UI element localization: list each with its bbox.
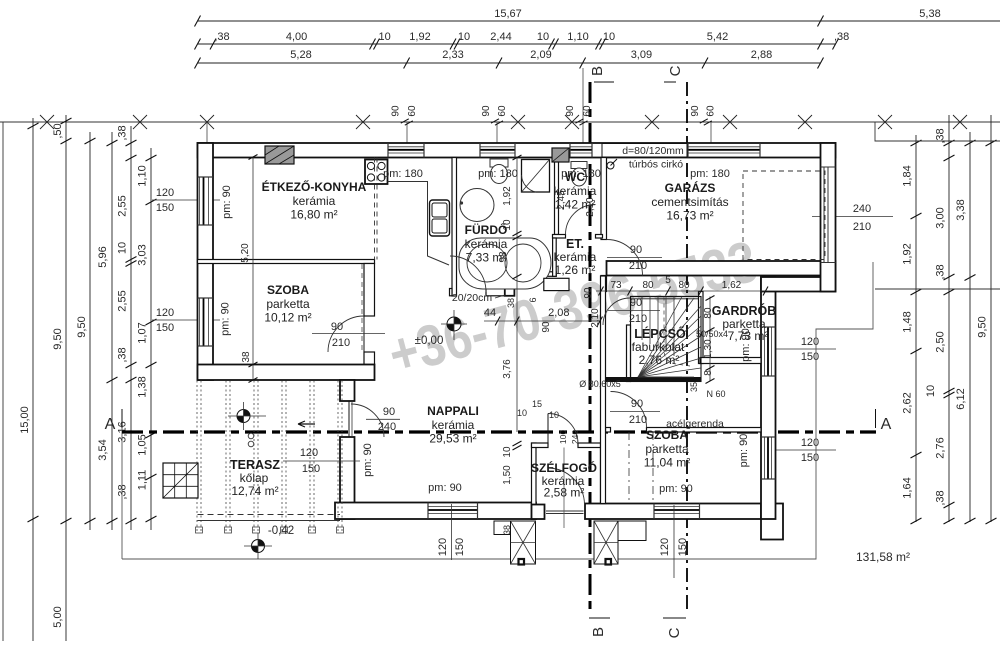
svg-text:ÉTKEZŐ-KONYHA: ÉTKEZŐ-KONYHA [262,179,367,194]
door label garage [607,257,662,259]
svg-text:2,62: 2,62 [902,392,914,413]
small arrow on A line [298,421,315,427]
svg-text:túrbós cirkó: túrbós cirkó [629,159,683,171]
porch side slab left [494,521,511,535]
wall: szelfogo north left [532,443,549,448]
svg-text:parketta: parketta [645,442,689,456]
svg-text:,38: ,38 [117,347,129,362]
window: WC top [570,146,592,148]
wall: szoba-left east upper [364,264,375,317]
wall: szoba-left east lower [364,352,375,365]
area outline 131,58 m2 boundary [122,262,873,559]
right dim line 9,50 [990,115,992,522]
wall: nappali west exterior lower [340,437,355,519]
svg-text:2,08: 2,08 [548,307,569,319]
svg-text:kerámia: kerámia [432,418,475,432]
svg-text:2,33: 2,33 [442,49,463,61]
svg-text:N 60: N 60 [706,389,725,399]
svg-text:120: 120 [156,187,174,199]
svg-text:kerámia: kerámia [554,250,597,264]
survey X mark at 572 [565,115,579,129]
svg-text:2,50: 2,50 [935,331,947,352]
right dim line 3,38/6,12 [969,132,971,522]
wall: nappali south exterior [335,503,536,520]
terasz bottom edges [198,514,341,516]
window: szoba-right south [654,506,700,508]
svg-text:240: 240 [378,421,396,433]
dimension row 3 (5,28 2,33 2,09 3,09 2,88) [198,62,821,64]
svg-text:5,38: 5,38 [919,8,940,20]
section line C [686,82,688,614]
wall: szelfogo north right [578,443,605,448]
survey X mark at 730 [723,115,737,129]
svg-text:38: 38 [241,351,252,363]
svg-text:2,44: 2,44 [490,31,511,43]
svg-text:120: 120 [659,538,671,556]
hall dim line 44/2,08 [484,320,600,322]
right dim connector top [875,122,1000,141]
section A right label [875,409,877,428]
window axis drop line 407 [406,122,408,143]
svg-text:2,10: 2,10 [590,308,601,328]
site survey line horizontal [0,121,1000,123]
svg-text:1,05: 1,05 [137,434,149,455]
survey X mark at 207 [200,115,214,129]
svg-text:210: 210 [629,414,647,426]
right dim line ,38/3,00.. [948,115,950,522]
window: kitchen top (pm180) [388,146,424,148]
wall: stairs west [627,325,631,382]
svg-text:29,53 m²: 29,53 m² [429,432,476,446]
window axis drop line 711 [710,122,712,143]
svg-text:,38: ,38 [117,125,129,140]
svg-text:±0,00: ±0,00 [415,335,444,347]
bath shower [522,160,550,193]
svg-text:5,20: 5,20 [240,243,251,263]
window: nappali south [428,506,478,508]
svg-text:1,50: 1,50 [502,465,513,485]
survey X mark at 652 [645,115,659,129]
svg-text:d=80/120mm: d=80/120mm [622,145,684,157]
wall: ET west [553,238,557,276]
svg-text:GARDRÓB: GARDRÓB [712,303,777,318]
svg-text:,38: ,38 [117,484,129,499]
section B top label [594,81,614,83]
right window dim 120/150 szoba [775,449,836,451]
svg-text:2,09: 2,09 [530,49,551,61]
svg-text:73: 73 [610,280,622,291]
svg-text:WC: WC [565,170,585,184]
svg-text:C: C [667,65,684,76]
area outline left leg [121,409,123,559]
stairs dim line above [596,290,766,292]
svg-text:12,74 m²: 12,74 m² [231,484,278,498]
svg-text:80: 80 [678,280,690,291]
chimney kitchen [265,146,294,164]
kitchen overhead dashed line [374,158,376,260]
dim line 5,20 kitchen/szoba [252,157,254,380]
svg-text:SZÉLFOGÓ: SZÉLFOGÓ [531,460,597,475]
wall: top exterior [198,143,836,158]
svg-text:1,30: 1,30 [703,339,714,359]
svg-text:1,84: 1,84 [902,165,914,186]
svg-text:5,28: 5,28 [290,49,311,61]
svg-text:pm: 90: pm: 90 [221,185,233,219]
svg-text:A: A [105,416,116,433]
wall: stairs/gardrob north boundary [631,296,702,298]
svg-text:38: 38 [506,298,516,308]
section line A [122,430,876,433]
svg-text:120: 120 [156,307,174,319]
svg-text:B: B [590,627,607,637]
svg-text:Ø 80,60x5: Ø 80,60x5 [579,379,621,389]
door label terasz [366,418,400,420]
wall: garage south [607,261,836,276]
survey X mark at 885 [878,115,892,129]
szoba-right bottom window dim [673,505,675,578]
wall: szelfogo east [601,443,605,519]
svg-text:pm: 180: pm: 180 [478,168,518,180]
svg-text:9,50: 9,50 [76,316,88,337]
wall: szelfogo west [532,443,537,519]
stairs dim line right [709,297,711,382]
svg-text:7,73 m²: 7,73 m² [728,329,769,343]
svg-text:90: 90 [630,297,642,309]
left dim line 9,50 outer [65,115,67,530]
svg-text:9,50: 9,50 [977,316,989,337]
svg-text:90: 90 [565,105,576,117]
svg-text:9,50: 9,50 [52,328,64,349]
svg-text:15,67: 15,67 [494,8,522,20]
bath WC pan [490,159,508,167]
window: szoba-right east [764,437,766,479]
porch step block left [511,521,536,564]
beam: acelgerenda under stairs [604,377,701,382]
section C bottom label [663,617,686,619]
wall: WC south right jamb [596,235,603,239]
dimension row 1 (15,67 / 5,38) [198,20,1000,22]
svg-text:FÜRDŐ: FÜRDŐ [465,222,508,237]
wall: east exterior lower block [761,277,776,519]
bath tub [459,238,551,289]
wall: hall north segment [514,272,556,277]
window: garage top [688,146,760,148]
terasz grid symbol [163,463,198,498]
svg-text:120: 120 [300,447,318,459]
svg-text:3,00: 3,00 [935,207,947,228]
svg-text:2,76 m²: 2,76 m² [639,353,680,367]
window: gardrob east [764,327,766,376]
svg-text:35: 35 [689,382,699,392]
svg-text:3,38: 3,38 [955,199,967,220]
svg-text:SZOBA: SZOBA [267,283,309,297]
svg-text:pm: 90: pm: 90 [220,302,232,336]
svg-text:150: 150 [454,538,466,556]
dimension row 2 (,38 4,00 10 1,92 10 2,44 10 1,10 10 5,42 ,38) [198,43,836,45]
svg-text:2,58 m²: 2,58 m² [544,486,585,500]
left window dim 120/150 kitchen [152,199,220,201]
svg-text:NAPPALI: NAPPALI [427,404,479,418]
svg-text:5,00: 5,00 [52,606,64,627]
svg-text:90: 90 [583,287,594,299]
svg-text:16,80 m²: 16,80 m² [290,208,337,222]
svg-text:80: 80 [642,280,654,291]
svg-text:1,38: 1,38 [137,376,149,397]
svg-text:150: 150 [156,322,174,334]
WC toilet [571,162,587,169]
svg-text:pm: 180: pm: 180 [383,168,423,180]
wall: szoba-right north left jamb [606,428,611,433]
svg-text:1,11: 1,11 [137,470,149,491]
terasz window dim 120/150 [283,460,360,462]
svg-text:1,92: 1,92 [902,243,914,264]
svg-text:10: 10 [925,385,937,397]
svg-text:5: 5 [665,275,671,286]
section B bottom label [589,617,610,619]
right dim connector mid [875,288,1000,290]
svg-text:90: 90 [331,321,343,333]
svg-text:1,10: 1,10 [137,165,149,186]
svg-text:cementsimítás: cementsimítás [651,195,728,209]
watermark phone number diagonal [382,228,764,387]
door: garage from hall [607,240,643,276]
svg-text:15,00: 15,00 [19,406,31,434]
svg-text:210: 210 [332,337,350,349]
svg-text:210: 210 [853,221,871,233]
kitchen counter edge [388,182,450,266]
svg-text:150: 150 [156,202,174,214]
left dim line 1,10/3,03 column [150,148,152,530]
left dim line 15,00 [32,118,34,641]
svg-text:3,76: 3,76 [502,359,513,379]
svg-text:90: 90 [541,321,552,333]
svg-text:1,07: 1,07 [137,322,149,343]
wall: szoba-right north (A axis) [647,428,762,433]
window axis drop line 497 [496,122,498,143]
section C top label [664,81,676,83]
svg-text:1,48: 1,48 [902,311,914,332]
wall: szoba-right SE corner pillar [761,504,783,540]
svg-text:3,54: 3,54 [97,439,109,460]
svg-text:pm: 90: pm: 90 [659,483,693,495]
pillar 20/20 [505,285,515,296]
wall: nappali west exterior upper [340,380,355,401]
svg-text:10: 10 [517,408,527,418]
entry axis line [563,448,565,529]
svg-text:LÉPCSŐ: LÉPCSŐ [634,326,686,341]
svg-text:4,00: 4,00 [286,31,307,43]
corner drop line 207 [206,122,208,143]
wall: gardrob south [700,358,761,364]
wall: szoba-left south exterior [198,365,375,381]
label d=80/120mm [602,144,687,158]
wall: bath south left jamb [450,289,453,296]
door: entry [548,468,585,505]
svg-text:B: B [589,66,606,76]
garage door dashed track [743,171,825,260]
wall: step wall below garage [761,277,836,292]
wall: garage east exterior [821,143,836,292]
door: bath [450,256,486,292]
window: bath top [480,146,515,148]
door: szelfogo-nappali [548,414,578,444]
chimney WC [552,148,569,162]
wall: left exterior [198,143,214,380]
svg-text:3,03: 3,03 [137,244,149,265]
svg-text:10: 10 [117,242,129,254]
svg-text:,50: ,50 [52,123,64,138]
svg-text:240: 240 [570,430,580,444]
svg-text:6: 6 [528,297,538,302]
svg-text:90: 90 [631,398,643,410]
svg-text:pm: 90: pm: 90 [428,482,462,494]
svg-text:44: 44 [484,307,496,319]
svg-text:90: 90 [391,105,402,117]
wall: WC south left [553,235,566,239]
svg-text:10: 10 [458,31,470,43]
svg-text:5,96: 5,96 [97,246,109,267]
left dim line 5,96/3,54 [111,132,113,530]
svg-text:60: 60 [407,105,418,117]
svg-text:kerámia: kerámia [293,194,336,208]
svg-text:,38: ,38 [935,264,947,279]
window: szoba left wall [199,298,201,346]
door: szoba-left [328,316,364,352]
svg-text:ET.: ET. [566,237,584,251]
survey X mark at 47 [40,115,54,129]
bath interior dim line [516,158,518,433]
window axis drop line 583 [582,68,584,143]
door label szoba-left [312,333,385,335]
wall: bath west [452,158,457,297]
wall: garage west [601,158,607,240]
svg-text:3,09: 3,09 [631,49,652,61]
wall: szoba-right south exterior [585,504,776,520]
svg-text:1,64: 1,64 [902,477,914,498]
left dim line 9,50 inner [89,132,91,530]
svg-text:C: C [666,627,683,638]
svg-text:10: 10 [502,446,513,458]
svg-text:7,33 m²: 7,33 m² [466,251,507,265]
svg-text:210: 210 [629,313,647,325]
survey X mark at 805 [798,115,812,129]
door: szoba-right [611,392,647,428]
door: stairs [603,298,630,325]
left dim line ,38/2,55 column [130,126,132,530]
svg-text:1,26 m²: 1,26 m² [555,263,596,277]
svg-text:8: 8 [703,370,714,376]
rain pipes [248,433,254,439]
boiler symbol [607,162,614,169]
door label stairs [608,310,660,312]
bath washbasin [460,189,494,222]
svg-text:10: 10 [378,31,390,43]
kitchen sink [430,200,450,236]
svg-text:90: 90 [383,406,395,418]
wall: szoba-right west [601,276,606,504]
svg-text:1,92: 1,92 [502,186,513,206]
door label szoba-right [610,411,660,413]
svg-text:150: 150 [677,538,689,556]
survey X mark at 518 [511,115,525,129]
kitchen hob [365,160,388,185]
porch step block right [594,521,618,564]
svg-text:2,76: 2,76 [935,437,947,458]
svg-text:2,88: 2,88 [751,49,772,61]
porch side slab right [618,521,646,541]
wall: szoba/kitchen divider [198,260,375,264]
szoba-left door axis dashed [361,264,363,352]
svg-text:10: 10 [549,410,559,420]
svg-text:120: 120 [437,538,449,556]
site boundary left vertical [2,122,4,641]
terasz hatch lines [196,381,198,534]
wall: stairs east / gardrob west [699,292,704,364]
right window dim 120/150 gardrob [775,348,836,350]
svg-text:5,42: 5,42 [707,31,728,43]
svg-text:1,10: 1,10 [567,31,588,43]
svg-text:90: 90 [481,105,492,117]
svg-text:15: 15 [532,399,542,409]
svg-text:1,92: 1,92 [409,31,430,43]
wall: bath south right [486,289,507,296]
nappali bottom window dim [451,504,453,560]
survey X mark at 140 [133,115,147,129]
svg-text:TERASZ: TERASZ [230,458,280,472]
svg-text:GARÁZS: GARÁZS [665,180,716,195]
svg-text:,38: ,38 [214,31,229,43]
svg-text:1,62: 1,62 [722,280,742,291]
hall shaft box [544,278,569,290]
door: WC [566,205,596,235]
svg-text:1,42 m²: 1,42 m² [555,198,596,212]
left window dim 120/150 szoba [152,319,220,321]
svg-text:parketta: parketta [266,297,310,311]
svg-text:38: 38 [502,525,512,535]
svg-text:210: 210 [629,260,647,272]
svg-text:100: 100 [558,430,568,444]
right dim line 1,84.. [915,135,917,522]
svg-text:131,58 m²: 131,58 m² [856,550,910,564]
svg-text:11,04 m²: 11,04 m² [644,456,690,470]
svg-text:150: 150 [302,463,320,475]
garage door east wall [823,167,825,263]
wall: WC west [555,158,559,235]
svg-text:A: A [881,416,892,433]
stair treads [642,297,674,357]
section line B [589,82,592,614]
svg-text:pm: 180: pm: 180 [690,168,730,180]
svg-text:SZOBA: SZOBA [646,428,688,442]
svg-text:10: 10 [537,31,549,43]
svg-text:90: 90 [630,244,642,256]
svg-text:16,73 m²: 16,73 m² [666,209,713,223]
svg-text:-0,42: -0,42 [268,525,294,537]
svg-text:60: 60 [497,105,508,117]
survey X mark at 960 [953,115,967,129]
wall: szelfogo south threshold [546,510,584,512]
svg-text:20/20cm: 20/20cm [452,292,493,304]
survey circle terasz bottom [252,540,265,553]
window: kitchen left wall [199,177,201,225]
terasz survey circle [237,410,250,423]
svg-text:60: 60 [582,105,593,117]
section A left label [121,409,123,428]
svg-text:240: 240 [853,203,871,215]
level mark +-0,00 [447,317,461,331]
svg-text:6,12: 6,12 [955,388,967,409]
door: terasz-nappali [351,404,384,437]
